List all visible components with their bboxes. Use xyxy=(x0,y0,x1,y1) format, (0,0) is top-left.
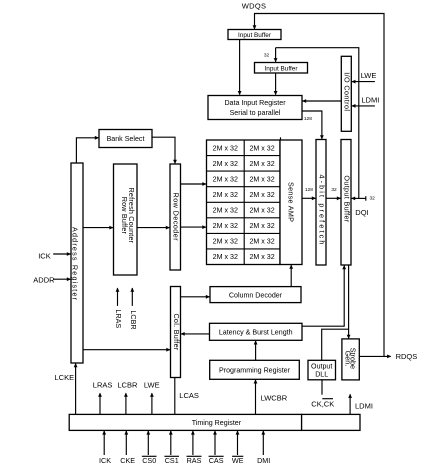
svg-text:Row Buffer: Row Buffer xyxy=(120,197,129,235)
svg-text:ADDR: ADDR xyxy=(33,275,55,284)
svg-text:ICK: ICK xyxy=(99,456,111,465)
input buffer U1 xyxy=(228,30,281,40)
wire Bank Select to Row Decoder xyxy=(152,137,175,163)
column decoder xyxy=(210,287,301,303)
svg-text:2M x 32: 2M x 32 xyxy=(249,160,274,168)
svg-text:Address Register: Address Register xyxy=(71,227,80,301)
svg-text:LCKE: LCKE xyxy=(55,373,75,382)
svg-text:LCBR: LCBR xyxy=(129,310,138,329)
svg-text:Column Decoder: Column Decoder xyxy=(229,292,283,300)
svg-text:2M x 32: 2M x 32 xyxy=(249,222,274,230)
svg-text:Gen.: Gen. xyxy=(344,351,353,367)
svg-text:LDMI: LDMI xyxy=(355,402,373,411)
svg-text:2M x 32: 2M x 32 xyxy=(249,175,274,183)
svg-text:2M x 32: 2M x 32 xyxy=(213,175,238,183)
node CK,CK# label xyxy=(311,399,334,409)
node LRAS stub up xyxy=(93,381,113,415)
svg-text:LRAS: LRAS xyxy=(93,381,113,390)
wire Address Register to Col Buffer xyxy=(83,349,170,351)
svg-text:LCAS: LCAS xyxy=(179,391,199,400)
svg-text:2M x 32: 2M x 32 xyxy=(213,238,238,246)
wire LWCBR Timing Register to Programming Register xyxy=(255,380,257,415)
svg-text:2M x 32: 2M x 32 xyxy=(249,144,274,152)
svg-text:Serial to parallel: Serial to parallel xyxy=(230,109,281,117)
svg-text:CK,CK: CK,CK xyxy=(311,399,334,408)
node CS1# bottom input xyxy=(164,430,179,465)
wire Row Decoder to array upper xyxy=(181,183,206,185)
latency and burst length xyxy=(210,323,303,340)
svg-text:32: 32 xyxy=(264,53,270,59)
wire DQI to Output Buffer xyxy=(352,197,366,199)
node LWE stub up xyxy=(144,381,160,415)
memory array 2M x 32 banks xyxy=(207,140,281,265)
sense amp xyxy=(280,140,302,265)
svg-text:2M x 32: 2M x 32 xyxy=(213,191,238,199)
svg-text:Timing Register: Timing Register xyxy=(192,419,242,427)
wire CK CK# into Output DLL xyxy=(321,380,323,395)
svg-text:CS1: CS1 xyxy=(165,456,179,465)
svg-text:WDQS: WDQS xyxy=(242,1,267,10)
node CAS# bottom input xyxy=(209,430,224,465)
svg-text:2M x 32: 2M x 32 xyxy=(213,222,238,230)
wire 4-bit prefetch to Output Buffer, 32 bus xyxy=(326,197,340,199)
svg-text:CAS: CAS xyxy=(209,456,224,465)
svg-text:ICK: ICK xyxy=(38,251,51,260)
svg-text:2M x 32: 2M x 32 xyxy=(249,191,274,199)
timing register extension box xyxy=(302,414,360,430)
node RAS# bottom input xyxy=(187,430,202,465)
wire DLL distribution branch xyxy=(322,329,349,360)
4-bit prefetch xyxy=(316,140,327,266)
svg-text:32: 32 xyxy=(331,187,337,193)
svg-text:LWE: LWE xyxy=(361,71,377,80)
wire Latency to Output Buffer clock xyxy=(302,266,344,327)
svg-text:CS0: CS0 xyxy=(142,456,156,465)
node WE# bottom input xyxy=(232,430,244,465)
wire Address Register to Refresh Counter xyxy=(83,227,113,229)
svg-text:Col. Buffer: Col. Buffer xyxy=(172,313,181,350)
programming register xyxy=(210,360,300,379)
wire Row Decoder to array lower xyxy=(181,226,206,228)
svg-text:DQI: DQI xyxy=(355,208,368,217)
wire LCAS Timing Register to Col Buffer xyxy=(174,378,176,415)
node LDMI output stub xyxy=(348,394,373,415)
refresh counter / row buffer xyxy=(114,164,138,275)
svg-text:WE: WE xyxy=(232,456,244,465)
address register xyxy=(71,163,83,363)
wire Refresh Counter to Row Decoder xyxy=(137,227,169,229)
svg-text:LRAS: LRAS xyxy=(114,309,123,328)
svg-text:Data Input Register: Data Input Register xyxy=(224,99,286,107)
row decoder xyxy=(170,164,181,270)
svg-text:DMI: DMI xyxy=(257,456,270,465)
wire Address Register to Bank Select xyxy=(76,138,98,163)
svg-text:Programming Register: Programming Register xyxy=(219,367,291,375)
svg-text:128: 128 xyxy=(305,187,313,193)
wire WDQS to input buffer and right rail xyxy=(255,14,385,357)
svg-text:128: 128 xyxy=(304,116,312,122)
svg-text:2M x 32: 2M x 32 xyxy=(213,144,238,152)
node CS0# bottom input xyxy=(142,430,157,465)
svg-text:LCBR: LCBR xyxy=(117,381,138,390)
svg-text:Output Buffer: Output Buffer xyxy=(342,175,351,222)
input buffer U2 xyxy=(255,63,308,74)
node LRAS refresh arrow xyxy=(114,288,123,329)
svg-text:2M x 32: 2M x 32 xyxy=(213,253,238,261)
svg-text:DLL: DLL xyxy=(315,370,328,378)
data input register xyxy=(208,96,302,120)
wire Input Buffer 2 to Data Input Register xyxy=(275,73,277,95)
svg-text:Bank Select: Bank Select xyxy=(107,135,145,143)
wire Latency to Col Buffer xyxy=(181,333,209,335)
svg-text:Sense AMP: Sense AMP xyxy=(287,182,296,222)
strobe gen xyxy=(342,339,359,380)
svg-text:2M x 32: 2M x 32 xyxy=(249,238,274,246)
wire Output Buffer to Strobe Gen xyxy=(348,265,350,338)
wire stub above sense amp xyxy=(280,137,282,140)
wire Col Buffer to Column Decoder xyxy=(181,296,210,298)
svg-text:I/O Control: I/O Control xyxy=(343,72,352,111)
bank select xyxy=(99,130,152,148)
wire Data Input Register to 4-bit prefetch, 128 bus xyxy=(302,111,322,139)
wire Programming Register to Latency xyxy=(255,341,257,360)
node LCBR stub up xyxy=(117,381,138,415)
svg-text:LWE: LWE xyxy=(144,381,160,390)
node ICK bottom input xyxy=(99,430,111,465)
svg-text:Latency & Burst Length: Latency & Burst Length xyxy=(219,329,293,337)
svg-text:Input Buffer: Input Buffer xyxy=(265,65,299,72)
wire Sense AMP to 4-bit prefetch, 128 bus xyxy=(302,197,315,199)
wire Input Buffer 1 to Data Input Register xyxy=(239,40,241,95)
node DMI bottom input xyxy=(257,430,270,465)
svg-text:2M x 32: 2M x 32 xyxy=(213,207,238,215)
wire down into Input Buffer 2 xyxy=(275,48,277,62)
svg-text:2M x 32: 2M x 32 xyxy=(249,253,274,261)
wire LCKE Timing Register to Address Register xyxy=(75,364,77,415)
svg-text:Row Decoder: Row Decoder xyxy=(172,193,181,242)
svg-text:LWCBR: LWCBR xyxy=(261,394,288,403)
svg-text:Output: Output xyxy=(311,362,332,370)
svg-text:2M x 32: 2M x 32 xyxy=(213,160,238,168)
I/O control block xyxy=(341,56,351,131)
col buffer xyxy=(171,287,181,378)
wire Strobe Gen to RDQS xyxy=(359,355,390,357)
svg-text:2M x 32: 2M x 32 xyxy=(249,207,274,215)
node CKE bottom input xyxy=(120,430,135,465)
svg-text:4-bit prefetch: 4-bit prefetch xyxy=(318,174,327,246)
output buffer xyxy=(341,140,351,266)
output DLL xyxy=(308,360,336,380)
wire Column Decoder to Sense AMP xyxy=(290,265,292,287)
wire arrow into Input Buffer top xyxy=(253,25,257,29)
svg-text:RAS: RAS xyxy=(187,456,202,465)
svg-text:CKE: CKE xyxy=(120,456,135,465)
svg-text:RDQS: RDQS xyxy=(396,352,418,361)
svg-text:32: 32 xyxy=(370,196,376,202)
wire I/O Control to Data Input Register xyxy=(303,100,342,102)
svg-text:Input Buffer: Input Buffer xyxy=(238,32,272,39)
svg-text:LDMI: LDMI xyxy=(361,96,379,105)
timing register xyxy=(69,414,301,430)
wire DQ net: horizontal to right rail segment and down to DQI line xyxy=(276,48,359,199)
node LCBR refresh arrow xyxy=(129,288,138,330)
